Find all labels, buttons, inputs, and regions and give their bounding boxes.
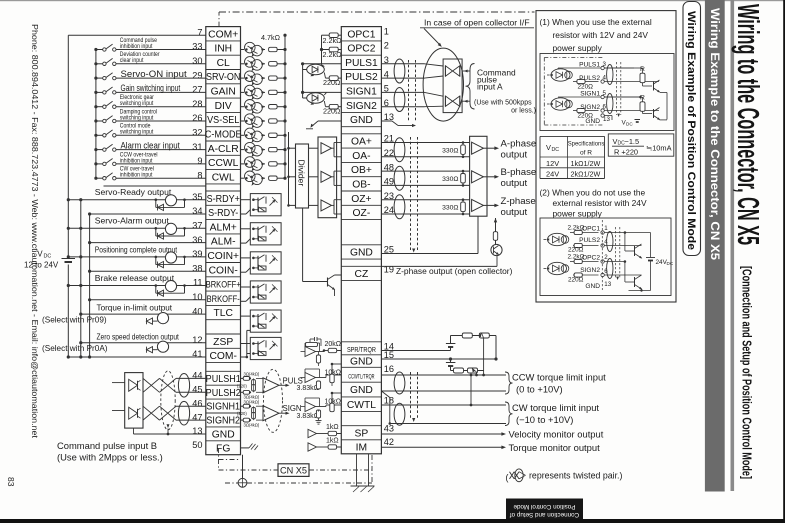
svg-text:(1) When you use the external: (1) When you use the external: [540, 17, 652, 27]
svg-text:Alarm clear input: Alarm clear input: [121, 140, 181, 151]
svg-text:represents twisted pair.): represents twisted pair.): [529, 471, 622, 481]
svg-text:GND: GND: [212, 430, 235, 441]
svg-text:(220): (220): [237, 411, 247, 416]
svg-text:GND: GND: [585, 118, 600, 125]
svg-text:PULS1: PULS1: [579, 61, 600, 68]
svg-text:34: 34: [192, 206, 202, 216]
svg-text:Phone: 800.894.0412 - Fax: 888: Phone: 800.894.0412 - Fax: 888.723.4773 …: [30, 24, 39, 439]
svg-text:Divider: Divider: [297, 160, 307, 187]
svg-text:Specifications: Specifications: [568, 140, 605, 147]
svg-text:1kΩ: 1kΩ: [326, 424, 339, 431]
svg-text:COIN+: COIN+: [207, 251, 239, 262]
svg-text:A-phase: A-phase: [501, 139, 537, 150]
svg-text:BRKOFF-: BRKOFF-: [207, 293, 240, 304]
svg-text:PULS1: PULS1: [345, 58, 378, 69]
svg-text:switching input: switching input: [120, 129, 154, 136]
svg-text:Torque monitor output: Torque monitor output: [509, 442, 601, 453]
svg-text:3.83kΩ: 3.83kΩ: [297, 385, 319, 392]
svg-text:Gain switching input: Gain switching input: [121, 83, 181, 93]
svg-text:13: 13: [192, 426, 202, 436]
svg-text:42: 42: [384, 437, 394, 447]
svg-text:of R: of R: [580, 150, 592, 157]
svg-text:Brake release output: Brake release output: [95, 273, 175, 283]
svg-text:8: 8: [197, 170, 202, 180]
svg-text:CWL: CWL: [212, 172, 235, 183]
svg-text:DC: DC: [626, 121, 633, 126]
svg-text:2.2kΩ: 2.2kΩ: [323, 36, 343, 45]
svg-text:CZ: CZ: [355, 269, 369, 280]
svg-text:or less.): or less.): [511, 107, 536, 114]
svg-text:45: 45: [192, 385, 202, 395]
svg-text:(−10 to +10V): (−10 to +10V): [516, 414, 573, 425]
svg-text:inhibition input: inhibition input: [120, 158, 153, 165]
svg-text:GND: GND: [350, 385, 373, 396]
svg-text:37: 37: [192, 221, 202, 231]
svg-text:27: 27: [192, 85, 202, 95]
svg-text:output: output: [501, 150, 528, 161]
svg-text:OB+: OB+: [351, 165, 372, 176]
svg-text:CCWL: CCWL: [208, 158, 239, 169]
svg-text:S-RDY+: S-RDY+: [207, 192, 241, 203]
svg-text:3Ω(4kΩ): 3Ω(4kΩ): [244, 372, 260, 377]
svg-text:(0 to +10V): (0 to +10V): [516, 383, 563, 394]
svg-text:SIGNH1: SIGNH1: [206, 400, 240, 411]
svg-text:GAIN: GAIN: [211, 87, 236, 98]
svg-text:ZSP: ZSP: [213, 337, 233, 348]
svg-text:resistor with 12V and 24V: resistor with 12V and 24V: [553, 30, 649, 40]
svg-text:R +220: R +220: [614, 148, 638, 157]
svg-text:COM-: COM-: [209, 351, 236, 362]
svg-text:OZ-: OZ-: [353, 208, 371, 219]
svg-text:Wiring Example of Position Con: Wiring Example of Position Control Mode: [685, 11, 697, 250]
svg-text:13: 13: [604, 281, 611, 288]
svg-text:11: 11: [193, 278, 203, 288]
svg-text:inhibition input: inhibition input: [120, 172, 153, 179]
svg-text:28: 28: [192, 99, 202, 109]
svg-text:CL: CL: [217, 58, 230, 69]
svg-text:Servo-Alarm output: Servo-Alarm output: [95, 216, 170, 226]
svg-text:≒10mA: ≒10mA: [646, 144, 672, 153]
svg-text:OPC1: OPC1: [582, 225, 600, 232]
svg-text:input A: input A: [477, 82, 503, 92]
svg-text:(Use with 500kpps: (Use with 500kpps: [474, 99, 532, 106]
svg-text:39: 39: [192, 249, 202, 259]
svg-text:GND: GND: [350, 248, 373, 259]
svg-text:(Select with Pr09): (Select with Pr09): [42, 316, 107, 325]
svg-text:B-phase: B-phase: [501, 167, 537, 178]
svg-text:SIGNH2: SIGNH2: [206, 414, 240, 425]
svg-text:32: 32: [192, 128, 202, 138]
svg-text:2: 2: [384, 41, 389, 51]
svg-text:Velocity monitor output: Velocity monitor output: [509, 429, 604, 440]
svg-text:SPR/TRQR: SPR/TRQR: [347, 346, 376, 354]
svg-text:V: V: [37, 250, 43, 259]
svg-text:(: (: [506, 473, 509, 483]
svg-text:OPC1: OPC1: [347, 29, 375, 40]
svg-text:CW torque limit input: CW torque limit input: [512, 402, 599, 413]
svg-text:220Ω: 220Ω: [323, 78, 341, 87]
svg-text:Command pulse input B: Command pulse input B: [57, 440, 157, 451]
svg-text:output: output: [501, 178, 528, 189]
svg-text:inhibition input: inhibition input: [120, 43, 153, 50]
svg-text:PULS2: PULS2: [345, 72, 378, 83]
svg-text:TLC: TLC: [213, 308, 233, 319]
svg-text:43: 43: [384, 424, 394, 434]
svg-text:3Ω(4kΩ): 3Ω(4kΩ): [244, 399, 260, 404]
svg-text:C-MODE: C-MODE: [205, 128, 242, 139]
svg-text:12V: 12V: [546, 159, 559, 168]
svg-text:330Ω: 330Ω: [442, 176, 458, 183]
svg-text:−1.5: −1.5: [625, 137, 640, 146]
svg-text:S-RDY-: S-RDY-: [208, 207, 238, 218]
svg-text:Wiring Example to the Connecto: Wiring Example to the Connector, CN X5: [708, 8, 722, 260]
svg-text:30: 30: [192, 56, 202, 66]
svg-text:1: 1: [604, 225, 608, 232]
svg-text:SIGN2: SIGN2: [346, 101, 377, 112]
svg-text:external resistor with 24V: external resistor with 24V: [553, 198, 647, 208]
svg-text:24V: 24V: [546, 170, 559, 179]
svg-text:Z-phase output (open collector: Z-phase output (open collector): [396, 266, 513, 276]
svg-text:2.2kΩ: 2.2kΩ: [323, 50, 343, 59]
svg-text:38: 38: [192, 263, 202, 273]
svg-text:IM: IM: [356, 442, 367, 453]
svg-text:330Ω: 330Ω: [442, 205, 458, 212]
svg-text:output: output: [501, 207, 528, 218]
svg-text:[Connection and Setup of Posit: [Connection and Setup of Position Contro…: [740, 266, 755, 479]
svg-text:220Ω: 220Ω: [578, 83, 594, 90]
svg-text:INH: INH: [214, 44, 232, 55]
svg-text:BRKOFF+: BRKOFF+: [206, 279, 241, 290]
svg-text:GND: GND: [585, 283, 600, 290]
svg-text:220Ω: 220Ω: [323, 107, 341, 116]
svg-text:1kΩ: 1kΩ: [326, 437, 339, 444]
svg-text:31: 31: [192, 142, 202, 152]
svg-text:PULS2: PULS2: [579, 75, 600, 82]
svg-text:Position Control Mode: Position Control Mode: [513, 503, 575, 510]
svg-text:46: 46: [192, 398, 202, 408]
svg-text:Positioning complete output: Positioning complete output: [95, 244, 178, 254]
svg-text:44: 44: [192, 371, 202, 381]
svg-text:220Ω: 220Ω: [568, 277, 584, 284]
svg-text:A-CLR: A-CLR: [208, 144, 239, 155]
svg-text:(Use with 2Mpps or less.): (Use with 2Mpps or less.): [57, 452, 163, 463]
svg-text:10: 10: [192, 292, 202, 302]
svg-text:35: 35: [192, 192, 202, 202]
svg-text:20kΩ: 20kΩ: [325, 341, 342, 348]
svg-text:In case of open collector I/F: In case of open collector I/F: [424, 18, 530, 28]
svg-text:ALM+: ALM+: [210, 222, 237, 233]
svg-text:V: V: [546, 143, 551, 152]
svg-text:41: 41: [192, 349, 202, 359]
svg-text:3.83kΩ: 3.83kΩ: [297, 413, 319, 420]
svg-text:OA+: OA+: [351, 137, 372, 148]
svg-text:clear input: clear input: [120, 58, 144, 65]
svg-text:12: 12: [192, 335, 202, 345]
svg-text:power supply: power supply: [553, 209, 603, 219]
svg-text:SIGN2: SIGN2: [580, 104, 600, 111]
svg-text:Servo-Ready output: Servo-Ready output: [95, 187, 172, 197]
svg-text:GND: GND: [350, 357, 373, 368]
svg-text:12 to 24V: 12 to 24V: [24, 261, 59, 270]
svg-text:7: 7: [197, 27, 202, 37]
svg-text:330Ω: 330Ω: [442, 148, 458, 155]
svg-text:switching input: switching input: [120, 101, 154, 108]
svg-text:SP: SP: [355, 428, 369, 439]
svg-text:ALM-: ALM-: [211, 237, 236, 248]
svg-text:4.7kΩ: 4.7kΩ: [261, 33, 281, 42]
svg-text:DIV: DIV: [215, 101, 232, 112]
svg-text:3Ω(4kΩ): 3Ω(4kΩ): [244, 422, 260, 427]
svg-text:switching input: switching input: [120, 115, 154, 122]
svg-text:SIGN2: SIGN2: [580, 267, 600, 274]
svg-text:47: 47: [192, 412, 202, 422]
svg-text:1kΩ1/2W: 1kΩ1/2W: [571, 159, 601, 168]
svg-text:26: 26: [192, 113, 202, 123]
svg-text:(Select with Pr0A): (Select with Pr0A): [42, 344, 108, 353]
svg-text:50: 50: [192, 440, 202, 450]
svg-text:DC: DC: [667, 261, 674, 266]
svg-text:OPC2: OPC2: [347, 44, 375, 55]
svg-text:2kΩ1/2W: 2kΩ1/2W: [571, 170, 601, 179]
svg-text:Torque in-limit output: Torque in-limit output: [97, 304, 173, 313]
svg-text:16: 16: [384, 364, 394, 374]
svg-text:COM+: COM+: [208, 29, 238, 40]
svg-text:SIGN1: SIGN1: [580, 90, 600, 97]
svg-text:PULS2: PULS2: [579, 237, 600, 244]
svg-text:OZ+: OZ+: [351, 194, 371, 205]
svg-text:OA-: OA-: [352, 151, 370, 162]
svg-text:SRV-ON: SRV-ON: [206, 71, 241, 82]
svg-text:OPC2: OPC2: [582, 254, 600, 261]
svg-text:CN X5: CN X5: [280, 466, 307, 476]
svg-text:33: 33: [192, 42, 202, 52]
svg-text:(220): (220): [237, 383, 247, 388]
svg-text:(2) When you do not use the: (2) When you do not use the: [540, 188, 646, 198]
svg-text:Z-phase: Z-phase: [501, 196, 536, 207]
svg-text:40: 40: [192, 306, 202, 316]
svg-text:PULSH1: PULSH1: [206, 373, 241, 384]
svg-text:29: 29: [192, 70, 202, 80]
svg-text:DC: DC: [44, 254, 52, 260]
svg-text:PULSH2: PULSH2: [206, 386, 241, 397]
svg-text:Servo-ON input: Servo-ON input: [121, 69, 187, 80]
svg-text:Wiring to the Connector, CN X5: Wiring to the Connector, CN X5: [731, 4, 766, 245]
svg-text:CCW torque limit input: CCW torque limit input: [512, 371, 606, 382]
svg-text:SIGN1: SIGN1: [346, 87, 377, 98]
svg-text:COIN-: COIN-: [209, 265, 238, 276]
svg-text:1: 1: [384, 26, 389, 36]
svg-text:DC: DC: [552, 147, 560, 153]
svg-text:power supply: power supply: [553, 43, 603, 53]
svg-text:OB-: OB-: [352, 180, 370, 191]
svg-text:Zero speed detection output: Zero speed detection output: [97, 332, 180, 342]
svg-text:Connection and Setup of: Connection and Setup of: [510, 511, 580, 518]
svg-text:36: 36: [192, 235, 202, 245]
svg-text:CWTL: CWTL: [347, 400, 376, 411]
svg-text:9: 9: [197, 156, 202, 166]
svg-text:220Ω: 220Ω: [568, 247, 584, 254]
svg-text:CCWTL/TRQR: CCWTL/TRQR: [348, 374, 374, 381]
svg-text:83: 83: [6, 477, 16, 487]
svg-text:VS-SEL: VS-SEL: [207, 114, 239, 125]
svg-text:GND: GND: [350, 115, 373, 126]
